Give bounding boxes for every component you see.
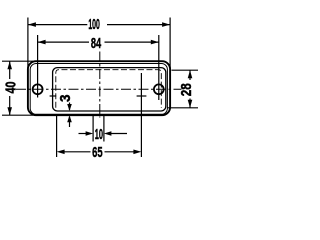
dimension line 10 right <box>111 133 128 135</box>
dimension line 3 upper <box>69 103 71 111</box>
extension line 40 top <box>2 60 33 62</box>
dimension line 10 left <box>79 133 87 135</box>
arrowhead 3 down <box>67 104 72 111</box>
dimension line 100 <box>28 24 87 26</box>
arrowhead 40 bottom <box>7 107 12 115</box>
svg-text:40: 40 <box>2 82 19 94</box>
mounting hole left <box>33 84 43 94</box>
svg-text:65: 65 <box>92 144 103 161</box>
dimension line 84 <box>38 41 89 43</box>
svg-text:100: 100 <box>88 16 100 33</box>
dimension line 65 right <box>105 151 137 153</box>
mounting hole right <box>154 84 164 94</box>
arrowhead 100 right <box>162 22 170 27</box>
extension line 65 left <box>56 115 58 157</box>
arrowhead 3 up <box>67 115 72 122</box>
hidden housing outline (dashed) <box>56 70 162 108</box>
lamp opening outline <box>53 68 166 111</box>
arrowhead 100 left <box>28 22 36 27</box>
extension line 100 right <box>169 18 171 71</box>
arrowhead 65 right <box>133 150 141 155</box>
extension line 10 right <box>103 115 105 141</box>
arrowhead 40 top <box>7 61 12 69</box>
extension line 84 right / hole centerline <box>158 35 160 100</box>
extension line 40 bottom <box>2 114 33 116</box>
extension line 100 left <box>27 18 29 71</box>
extension line 10 left <box>92 115 94 141</box>
svg-text:3: 3 <box>57 94 74 102</box>
tick right stud <box>137 95 147 97</box>
arrowhead 10 right pointing left <box>104 131 112 136</box>
arrowhead 28 bottom <box>188 100 193 108</box>
vertical centerline <box>99 52 101 118</box>
extension line 84 left / hole centerline <box>37 35 39 98</box>
outer flange outline <box>28 61 170 115</box>
horizontal centerline <box>16 88 182 90</box>
dimension line 3 lower <box>69 117 71 128</box>
extension line 28 bottom <box>167 107 198 109</box>
arrowhead 84 left <box>38 40 46 45</box>
inner rim offset line <box>30 64 167 115</box>
extension line 28 top <box>172 69 199 71</box>
tick left stud <box>50 95 57 97</box>
arrowhead 28 top <box>188 70 193 78</box>
svg-text:10: 10 <box>95 126 103 143</box>
dimension line 65 left <box>62 151 91 153</box>
arrowhead 84 right <box>151 40 159 45</box>
dimension line 28 <box>189 70 191 80</box>
svg-text:84: 84 <box>91 35 102 52</box>
extension line 65 right <box>140 73 142 157</box>
dimension line 40 <box>9 61 11 79</box>
svg-text:28: 28 <box>178 83 195 96</box>
arrowhead 65 left <box>57 150 65 155</box>
arrowhead 10 left pointing right <box>86 131 94 136</box>
